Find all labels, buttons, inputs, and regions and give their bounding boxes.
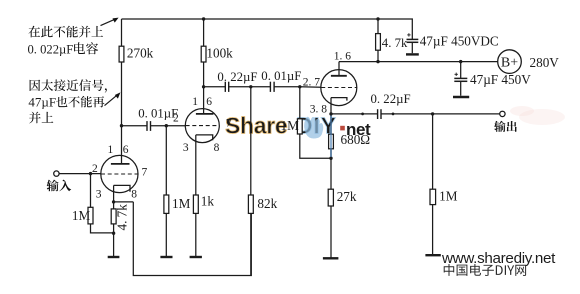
V1 pin labels xyxy=(92,144,148,201)
resistor 4.7k plate xyxy=(376,34,408,51)
wire B+ line xyxy=(339,61,498,63)
node top rail at 100k xyxy=(202,17,205,20)
V2 cathode xyxy=(196,135,213,140)
svg-text:0. 22µF: 0. 22µF xyxy=(217,70,257,84)
node 1M load top xyxy=(431,112,434,115)
node V3 cathode output xyxy=(329,112,332,115)
annotation line 4 xyxy=(28,94,104,109)
annotation line 2 xyxy=(28,42,99,56)
node V1 grid 1M xyxy=(89,172,92,175)
svg-text:B+: B+ xyxy=(501,56,518,71)
node V1 plate coupling xyxy=(120,124,123,127)
annotation arrow 2 xyxy=(105,92,121,105)
resistor 1M load xyxy=(430,188,458,204)
wire 270k branch / V1 plate lead xyxy=(121,19,123,164)
node output line a xyxy=(361,113,364,116)
V3 grid xyxy=(321,87,356,89)
svg-text:1. 6: 1. 6 xyxy=(334,50,352,62)
wire output line xyxy=(331,113,500,115)
ground 1M V2 grid xyxy=(160,256,172,258)
svg-text:1M: 1M xyxy=(439,188,458,203)
annotation arrow 1 xyxy=(101,18,119,26)
svg-text:0. 022µF: 0. 022µF xyxy=(28,42,74,56)
node output line b xyxy=(392,113,395,116)
svg-text:4. 7k: 4. 7k xyxy=(382,36,408,50)
node 680-27k junction xyxy=(329,157,332,160)
wire V1 cathode to feedback xyxy=(114,201,134,203)
node V2 grid resistor xyxy=(165,124,168,127)
svg-text:8: 8 xyxy=(131,188,137,200)
svg-text:280V: 280V xyxy=(530,55,560,70)
resistor 100k xyxy=(201,45,233,62)
node top rail at 4.7k xyxy=(376,17,379,20)
ground 47uF 450V xyxy=(453,96,469,98)
input terminal xyxy=(54,171,59,176)
svg-text:0. 01µF: 0. 01µF xyxy=(261,69,301,83)
wire 1M V2 grid resistor branch xyxy=(165,126,167,256)
svg-text:1: 1 xyxy=(192,96,198,108)
resistor 1M V3 grid xyxy=(281,118,303,134)
node V1 cathode xyxy=(112,200,115,203)
resistor 1M input xyxy=(72,207,93,224)
triode V2 envelope xyxy=(185,109,219,143)
svg-text:0. 22µF: 0. 22µF xyxy=(371,92,411,106)
capacitor 0.01uF coupling V1-V2 xyxy=(138,107,178,131)
svg-text:100k: 100k xyxy=(206,45,233,60)
capacitor 0.01uF mid xyxy=(261,69,301,92)
annotation line 5 CJK xyxy=(29,112,53,124)
svg-text:3. 8: 3. 8 xyxy=(310,104,328,116)
svg-text:47µF 450VDC: 47µF 450VDC xyxy=(420,33,499,48)
svg-text:8: 8 xyxy=(214,142,220,154)
V2 pin labels xyxy=(173,96,232,154)
capacitor 0.22uF mid xyxy=(217,70,257,92)
wire 4.7k branch xyxy=(377,19,379,62)
wire V2 cathode to 1k xyxy=(195,135,197,256)
V2 plate xyxy=(196,113,214,115)
wire 680 and 27k branch xyxy=(330,114,332,258)
svg-text:1: 1 xyxy=(108,144,114,156)
wire 82k branch xyxy=(250,87,252,276)
wire C6 branch xyxy=(460,62,462,96)
svg-text:47µF 450V: 47µF 450V xyxy=(470,72,531,87)
svg-text:3: 3 xyxy=(183,142,189,154)
svg-text:1M: 1M xyxy=(281,118,300,133)
svg-text:Share: Share xyxy=(225,113,287,139)
input label CJK xyxy=(47,180,72,192)
resistor 82k xyxy=(248,195,277,213)
V1 cathode xyxy=(114,185,130,191)
watermark ShareDIY.net glow xyxy=(220,110,380,142)
V2 grid xyxy=(186,125,220,127)
B+ terminal xyxy=(498,50,522,74)
wire coupling V1 plate to V2 grid xyxy=(122,125,186,127)
svg-text:1M: 1M xyxy=(172,196,191,211)
ground 47uF 450VDC xyxy=(406,53,419,55)
wire 1M V3 grid resistor branch xyxy=(300,87,331,158)
svg-text:27k: 27k xyxy=(337,189,357,204)
svg-text:2: 2 xyxy=(92,163,98,175)
ground 27k xyxy=(323,257,339,259)
wire 100k branch / V2 plate lead xyxy=(203,19,205,114)
svg-text:1M: 1M xyxy=(72,208,91,223)
wire coupling V2 plate to V3 grid xyxy=(204,86,322,89)
resistor 27k xyxy=(328,189,357,206)
annotation line 1 CJK xyxy=(28,26,103,38)
node V2 plate coupling xyxy=(202,85,205,88)
V3 pin labels xyxy=(303,50,352,115)
svg-text:82k: 82k xyxy=(257,196,277,211)
resistor 1k xyxy=(193,193,214,213)
triode V3 envelope xyxy=(321,70,357,106)
wire B+ top rail xyxy=(122,19,413,39)
svg-text:6: 6 xyxy=(206,96,212,108)
node 82k top xyxy=(249,85,252,88)
svg-text:www.sharediy.net: www.sharediy.net xyxy=(441,250,556,267)
triode V1 envelope xyxy=(101,155,138,192)
node V3 grid xyxy=(298,85,301,88)
watermark url text xyxy=(441,250,556,267)
V3 cathode xyxy=(331,98,347,101)
svg-text:4. 7k: 4. 7k xyxy=(115,204,130,231)
watermark pink smudge right xyxy=(510,106,565,125)
capacitor 47uF 450V electrolytic xyxy=(454,72,531,87)
svg-text:270k: 270k xyxy=(127,45,154,60)
wire V3 plate lead xyxy=(338,62,340,76)
svg-text:2. 7: 2. 7 xyxy=(303,76,321,88)
node 1M input bottom xyxy=(112,232,115,235)
V1 plate xyxy=(111,163,130,165)
resistor 270k xyxy=(119,45,154,62)
resistor 680 ohm xyxy=(329,132,371,149)
ground 4.7k cathode xyxy=(108,256,120,258)
watermark CJK site name xyxy=(444,264,526,276)
V1 grid xyxy=(101,173,138,175)
wire V3 cathode lead xyxy=(330,98,332,114)
node B+ line at 47uF xyxy=(459,60,462,63)
wire V1 cathode / 4.7k to ground xyxy=(113,185,115,256)
resistor 4.7k cathode xyxy=(111,204,129,231)
svg-text:47µF: 47µF xyxy=(28,94,56,109)
svg-text:7: 7 xyxy=(142,167,148,179)
V3 plate xyxy=(331,75,347,77)
annotation line 3 CJK xyxy=(30,79,107,92)
resistor 1M V2 grid xyxy=(164,195,191,213)
svg-text:7: 7 xyxy=(226,118,232,130)
wire feedback bottom loop xyxy=(133,202,251,276)
svg-text:1k: 1k xyxy=(201,193,215,208)
svg-text:3: 3 xyxy=(96,188,102,200)
ground 1M load xyxy=(425,254,440,256)
watermark blue tint on V3 cathode line xyxy=(330,116,332,158)
svg-text:6: 6 xyxy=(123,144,129,156)
output label CJK xyxy=(494,121,517,132)
wire 1M load branch xyxy=(432,114,434,255)
wire input to V1 grid xyxy=(59,173,101,175)
node B+ line at 4.7k xyxy=(376,60,379,63)
output terminal xyxy=(500,111,505,116)
capacitor 47uF 450VDC electrolytic xyxy=(407,33,499,53)
capacitor 0.22uF output xyxy=(371,92,411,119)
ground 1k xyxy=(190,256,202,258)
svg-text:0. 01µF: 0. 01µF xyxy=(138,107,178,121)
svg-text:680Ω: 680Ω xyxy=(341,132,371,147)
label 280V xyxy=(530,55,560,70)
watermark word Share xyxy=(225,113,371,139)
wire 1M input branch xyxy=(91,174,114,233)
